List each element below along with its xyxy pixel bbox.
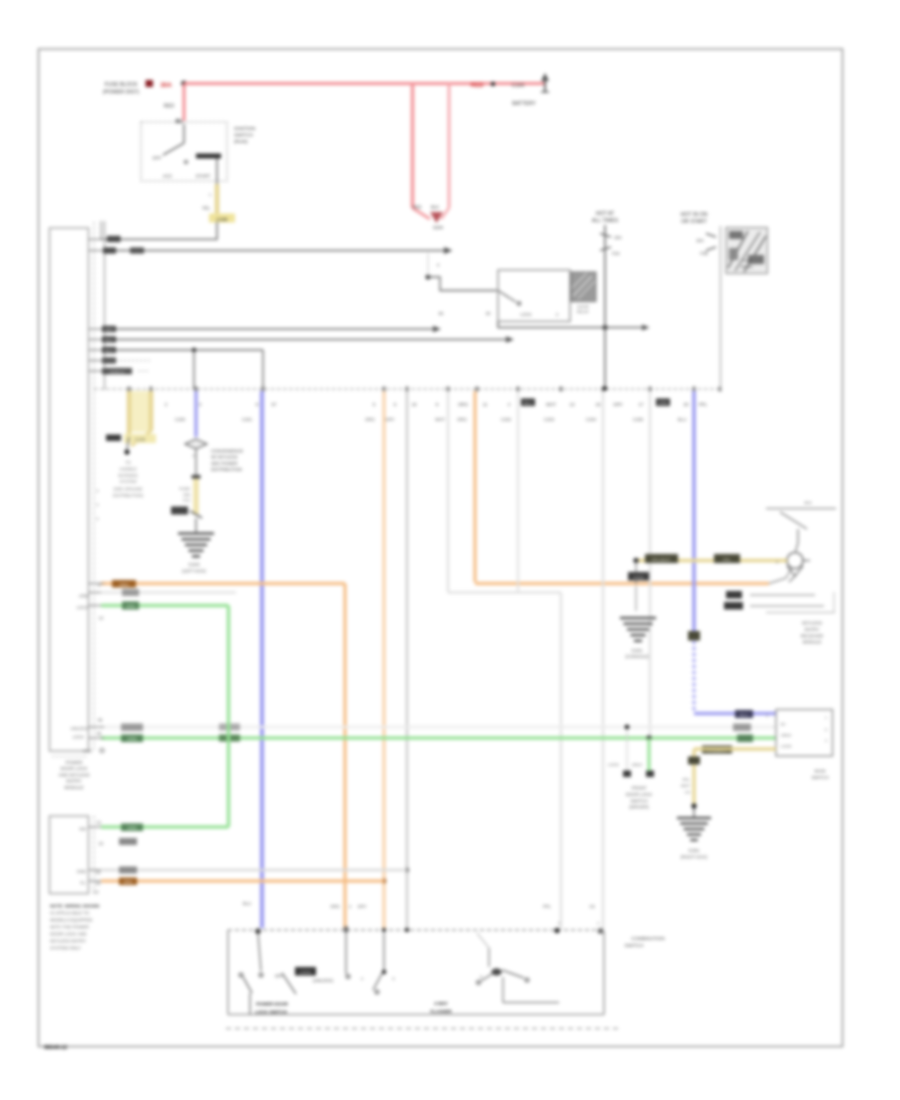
wire blue main [260, 391, 264, 928]
wire K2 out drop [497, 322, 499, 329]
pin stub row2 [89, 250, 105, 252]
wire circle right stub [803, 560, 810, 562]
wire pale 3 drop [602, 391, 604, 930]
svg-text:ORG: ORG [123, 880, 133, 885]
svg-text:MODULE: MODULE [803, 640, 822, 645]
svg-text:SYSTEM ONLY: SYSTEM ONLY [50, 946, 81, 951]
svg-text:ORG: ORG [330, 904, 340, 909]
svg-text:DOOR LOCK AND: DOOR LOCK AND [50, 932, 87, 937]
svg-text:30A: 30A [160, 82, 172, 89]
chip FL1 [171, 507, 188, 515]
arrow row3 [433, 326, 441, 333]
svg-text:FUSE BLOCK: FUSE BLOCK [105, 82, 138, 88]
connector C1 vertical [104, 221, 106, 390]
label row1 chip [107, 236, 121, 242]
contact S3 c1 [477, 981, 481, 985]
svg-text:MAIN: MAIN [815, 769, 826, 774]
svg-text:5: 5 [825, 728, 827, 732]
svg-text:SW: SW [79, 827, 86, 832]
wire pale 2 drop [517, 391, 519, 593]
wire row2 long [104, 250, 444, 252]
switch S3 right edge [603, 931, 605, 1015]
svg-text:(LEFT KICK): (LEFT KICK) [182, 568, 206, 573]
switch S3 bottom edge [228, 1014, 604, 1016]
svg-text:(CONSOLE): (CONSOLE) [625, 654, 649, 659]
wire S3 mid drop1 [345, 933, 347, 974]
pin tick x129 [128, 387, 131, 392]
svg-text:C2: C2 [93, 890, 99, 895]
svg-text:57: 57 [272, 402, 277, 407]
pin tick x518 [517, 387, 520, 392]
wire orange C drop [473, 391, 476, 582]
svg-text:DISTRIBUTION): DISTRIBUTION) [113, 493, 144, 498]
wire orange left run [101, 582, 345, 585]
svg-text:SHIELD: SHIELD [110, 369, 125, 374]
wire pad stub [626, 729, 628, 770]
wire row3 [104, 328, 433, 330]
svg-text:GRY: GRY [358, 904, 367, 909]
svg-text:PWR: PWR [743, 259, 752, 263]
svg-text:BLU: BLU [740, 713, 748, 718]
wire gray row [101, 869, 407, 871]
pin stub row6 [89, 360, 105, 362]
svg-text:C202: C202 [501, 417, 512, 422]
wire row7 dashed [138, 370, 149, 372]
wire blue right drop [692, 391, 696, 634]
node hot1 bus [603, 386, 607, 390]
node S3 pin 402 [405, 928, 409, 932]
wire row4 [104, 339, 506, 341]
node yellow join [124, 449, 129, 454]
wire yellow tail [127, 437, 129, 449]
svg-text:POWER: POWER [65, 760, 83, 765]
svg-text:UNLOCK: UNLOCK [71, 726, 89, 731]
svg-text:30: 30 [486, 311, 491, 316]
wire yellow switch run [694, 747, 776, 750]
svg-text:PPL: PPL [723, 557, 732, 562]
label row3 chip [102, 326, 116, 332]
node gray C junction [405, 868, 409, 872]
svg-text:17: 17 [639, 402, 644, 407]
contact S3 c2 [525, 978, 529, 982]
wire row5 [104, 349, 263, 351]
svg-text:MODELS EQUIPPED: MODELS EQUIPPED [50, 918, 92, 923]
wire row5 drop a [193, 350, 195, 389]
svg-text:GRY: GRY [613, 402, 623, 407]
svg-text:WARNING: WARNING [118, 473, 138, 478]
node S3 mid2 [382, 970, 386, 974]
wire blue right dashed [693, 641, 696, 712]
pin stub gray row [89, 869, 105, 871]
contact S3 mid2 [375, 990, 379, 994]
wire yellow keyless [636, 559, 787, 562]
wire pale 1 run [448, 591, 561, 593]
pin stub green return [89, 826, 105, 828]
chip yellow row [702, 746, 732, 754]
node orange B junction [382, 879, 387, 884]
label row5 chip [102, 347, 116, 353]
blade S3 mid2 [373, 974, 382, 991]
contact S3 mid1 [346, 975, 350, 979]
svg-text:WHT: WHT [681, 783, 691, 788]
svg-text:RECEIVER: RECEIVER [801, 633, 823, 638]
svg-text:PPL: PPL [699, 402, 708, 407]
pin tick x650 [649, 387, 652, 392]
arrow red loop [430, 212, 443, 223]
wire S3 center run [503, 1002, 559, 1004]
svg-text:BLU: BLU [105, 348, 113, 353]
relay K2 body blob [571, 272, 596, 302]
wire link to module [100, 238, 217, 240]
svg-text:B+: B+ [781, 722, 787, 727]
pin stub row1 [89, 238, 105, 240]
arrow row2 [444, 247, 453, 254]
pin stub row4 [89, 339, 105, 341]
svg-text:WHT: WHT [435, 417, 445, 422]
chip keyless 1 [645, 554, 678, 563]
svg-text:(SEE GROUND: (SEE GROUND [114, 487, 143, 492]
pin tick x448 [447, 387, 450, 392]
wire gray C drop [406, 391, 409, 929]
svg-text:22: 22 [99, 841, 104, 846]
svg-text:C205: C205 [633, 417, 644, 422]
svg-text:LOCK: LOCK [608, 762, 619, 767]
contact S3 b [259, 973, 263, 977]
battery B+ symbol [544, 75, 546, 92]
svg-text:GND: GND [83, 749, 92, 754]
svg-text:LOCK: LOCK [300, 970, 312, 975]
pin stub row7 [89, 370, 105, 372]
pin stub orange row2 [89, 880, 105, 882]
wire relay2 coil in [428, 277, 497, 291]
node row5 [192, 348, 196, 352]
wire yellow switch drop [692, 749, 695, 806]
svg-text:LOCK: LOCK [781, 744, 792, 749]
svg-text:S204: S204 [433, 225, 444, 230]
wire red loop right leg [448, 84, 451, 209]
switch blade K1 [163, 143, 184, 155]
svg-text:ILL: ILL [80, 880, 86, 885]
wire blue right corner [694, 712, 776, 715]
svg-text:21: 21 [97, 820, 102, 825]
wire pale 4 drop [649, 391, 651, 736]
label row2 chip [103, 247, 116, 253]
svg-text:13: 13 [570, 402, 575, 407]
wire K1 internal in [183, 124, 185, 143]
svg-text:8: 8 [96, 489, 98, 493]
svg-text:15A: 15A [614, 235, 622, 240]
svg-text:WHT: WHT [546, 402, 556, 407]
pin tick x384 [383, 387, 386, 392]
node blue bottom [255, 928, 261, 934]
wire pale 1 down [560, 593, 562, 930]
node S3 corner pin [598, 929, 603, 934]
svg-text:B1: B1 [176, 119, 183, 125]
svg-text:15A: 15A [183, 492, 190, 497]
wire S3 mid drop2 [383, 933, 385, 970]
blade S3 b [282, 973, 296, 994]
wire yellow pair left [127, 391, 132, 437]
pin tick x196 [195, 387, 198, 392]
svg-text:DOOR LOCK: DOOR LOCK [626, 792, 652, 797]
relay K3 box [726, 228, 768, 274]
node B [491, 82, 495, 86]
wire K2 out run [498, 327, 648, 329]
svg-text:WITH THE POWER: WITH THE POWER [50, 925, 89, 930]
wire blk below C2 [195, 449, 197, 478]
pin tick x720 [719, 387, 722, 392]
svg-text:GRN: GRN [658, 401, 667, 406]
svg-text:AUDIBLE: AUDIBLE [119, 466, 137, 471]
wire blue drop 1 [194, 391, 197, 437]
node A [181, 81, 187, 87]
relay K1 box [141, 122, 227, 181]
svg-text:ORG: ORG [119, 582, 129, 587]
fuse F1 [146, 80, 154, 87]
terminal bar K1 [196, 154, 221, 159]
svg-text:RED: RED [164, 104, 175, 110]
pin stub row3 [89, 328, 105, 330]
chip pale row [122, 589, 139, 596]
pin tick x477 [476, 387, 479, 392]
svg-text:C6: C6 [589, 904, 595, 909]
svg-text:F35: F35 [700, 251, 708, 256]
wire yellow gnd stub [693, 808, 695, 818]
svg-text:C100: C100 [512, 83, 525, 89]
wire hot right column [720, 226, 722, 389]
wire hot1 column [604, 225, 606, 389]
wire keyless link down [635, 561, 637, 585]
svg-text:LOCK: LOCK [73, 735, 85, 740]
wire orange C link [769, 567, 792, 584]
svg-text:OFF: OFF [275, 974, 284, 979]
antenna stroke [780, 512, 807, 529]
svg-text:BLU: BLU [678, 417, 686, 422]
svg-text:8: 8 [96, 503, 98, 507]
svg-text:POWER DOOR: POWER DOOR [256, 1002, 289, 1007]
svg-text:C203: C203 [544, 417, 555, 422]
wire red feed horizontal [184, 82, 545, 85]
wire row6 dashed [104, 360, 151, 362]
pin stub green row [89, 605, 105, 607]
svg-text:G203: G203 [188, 562, 200, 567]
arrow K2 out [642, 325, 650, 331]
wire orange B [383, 391, 386, 929]
switch arm keyless [796, 529, 799, 552]
svg-text:START: START [196, 174, 211, 179]
wire red drop to relay [183, 84, 186, 122]
blade S3 c2 [502, 970, 524, 978]
svg-text:(RUN): (RUN) [234, 139, 248, 145]
chip blue row [735, 710, 753, 718]
pin chip A1 [521, 399, 535, 407]
chip orange lower [119, 878, 137, 886]
svg-text:DOOR: DOOR [577, 305, 589, 309]
chip C213 [628, 572, 649, 581]
svg-text:LOCK: LOCK [77, 605, 89, 610]
svg-text:CONVENIENCE: CONVENIENCE [211, 449, 243, 454]
wire below orange stub [635, 586, 637, 611]
wire green return [101, 825, 229, 828]
connector chip C245 [209, 214, 235, 223]
svg-text:4 WAY: 4 WAY [434, 1001, 448, 1006]
fuse F24 symbol [600, 234, 611, 238]
blade S3 a [243, 977, 252, 993]
svg-text:8: 8 [480, 975, 482, 979]
svg-text:C246: C246 [135, 437, 146, 442]
svg-text:8: 8 [96, 517, 98, 521]
svg-text:COMBINATION: COMBINATION [631, 936, 665, 942]
chip yellow top [688, 757, 700, 765]
label row6 chip [102, 357, 116, 363]
label row7 chip [102, 368, 132, 374]
svg-text:ORG: ORG [365, 417, 375, 422]
wire pale 1 drop [447, 391, 449, 593]
svg-text:BLK: BLK [105, 338, 113, 343]
svg-text:SWITCH: SWITCH [630, 798, 647, 803]
svg-text:IGNITION: IGNITION [234, 126, 256, 132]
switch pads [623, 771, 631, 778]
node S3 pin 384 [382, 928, 386, 932]
chip green return [121, 824, 143, 832]
module M1 inner dash [52, 756, 88, 758]
svg-text:FRONT: FRONT [631, 786, 646, 791]
pin tick x407 [406, 387, 409, 392]
chip actuator row1 [726, 591, 742, 599]
arrow row4 [506, 336, 514, 343]
wire feed faint [427, 253, 429, 277]
wire yellow pair fill [127, 391, 149, 432]
chip green 2 [737, 735, 753, 743]
svg-text:MODULE: MODULE [64, 785, 83, 790]
svg-text:SWITCH: SWITCH [234, 133, 253, 139]
svg-text:B10: B10 [804, 500, 812, 505]
svg-text:GND: GND [77, 869, 86, 874]
chip white 2 [733, 724, 751, 732]
svg-text:ENTRY: ENTRY [805, 627, 820, 632]
svg-text:C200: C200 [175, 417, 186, 422]
pin stub green [89, 737, 105, 739]
svg-text:98G40-12: 98G40-12 [44, 1045, 67, 1051]
svg-text:G201: G201 [631, 648, 643, 653]
switch S3 left edge [227, 930, 229, 1015]
wire pale left row [101, 591, 236, 593]
svg-text:GRN: GRN [126, 604, 135, 609]
ground G301 [677, 817, 711, 819]
chip yellow pair [124, 434, 156, 443]
node white row [625, 725, 630, 730]
svg-text:C245: C245 [217, 217, 228, 222]
svg-text:W/ KEYLESS: W/ KEYLESS [211, 455, 238, 460]
fuse F35 symbol [706, 234, 716, 238]
connector dashed below [226, 1028, 618, 1030]
svg-text:ORG: ORG [458, 402, 469, 407]
wire yellow link [215, 184, 220, 215]
svg-text:PPL: PPL [543, 904, 552, 909]
pin stub white [89, 726, 105, 728]
node K2 fuse junction [603, 325, 608, 330]
connector inline C2 [185, 439, 207, 449]
wire row5 drop b [262, 350, 264, 389]
svg-text:F12: F12 [183, 498, 191, 503]
wire actuator right bracket [833, 592, 835, 613]
chip orange row [112, 580, 136, 588]
svg-text:SYSTEM: SYSTEM [120, 479, 137, 484]
svg-text:12: 12 [99, 616, 104, 621]
wire green upper row [101, 604, 229, 607]
svg-text:C213: C213 [633, 575, 644, 580]
wire orange lower row [101, 879, 384, 882]
ground G201 [620, 617, 656, 620]
pin tick x263 [262, 387, 265, 392]
svg-text:DISTRIBUTION: DISTRIBUTION [211, 467, 242, 472]
svg-text:UNLK: UNLK [781, 733, 792, 738]
svg-text:UNLK: UNLK [632, 762, 643, 767]
svg-text:(UNLOCK): (UNLOCK) [313, 978, 334, 983]
chip gray row [119, 867, 137, 874]
svg-text:BLU: BLU [524, 401, 532, 406]
ground G203 [178, 532, 214, 535]
svg-text:NOTE: WIRING SHOWN: NOTE: WIRING SHOWN [50, 904, 99, 909]
wire S3 stem feed [477, 933, 489, 948]
pin circle row3 [100, 749, 104, 753]
svg-text:3: 3 [825, 739, 827, 743]
pin tick x694 [693, 387, 696, 392]
wire yellow pair right [149, 391, 154, 431]
chip white 1 [121, 724, 143, 732]
svg-text:SWITCH: SWITCH [811, 775, 828, 780]
svg-text:ALL TIMES: ALL TIMES [592, 218, 619, 224]
chip keyless 2 [714, 554, 740, 563]
wire green pad drop [648, 738, 651, 771]
contact K2 [517, 302, 520, 305]
fusible link FL1 [193, 477, 199, 514]
svg-text:RED: RED [413, 205, 422, 210]
svg-text:PPL/WHT: PPL/WHT [652, 557, 671, 562]
chip yellow pair bold [106, 435, 121, 442]
svg-text:(RIGHT KICK): (RIGHT KICK) [681, 854, 708, 859]
module M1 box lower [50, 816, 89, 894]
wire link down [216, 222, 218, 240]
svg-text:DOOR LOCK: DOOR LOCK [60, 766, 87, 771]
wire white row [101, 726, 776, 729]
svg-text:GRN: GRN [127, 737, 136, 742]
pin stub row5 [89, 349, 105, 351]
svg-text:(POWER DIST): (POWER DIST) [103, 90, 140, 96]
svg-text:GRY: GRY [105, 327, 114, 332]
chip S3 lock [295, 967, 316, 976]
svg-text:FUSE: FUSE [179, 486, 190, 491]
svg-text:35: 35 [97, 731, 102, 736]
svg-text:C204: C204 [586, 417, 597, 422]
switch blade K2 [498, 291, 516, 303]
wire red loop left leg [411, 84, 414, 209]
label row 842 chip [119, 838, 137, 845]
svg-text:F24: F24 [612, 251, 620, 256]
svg-text:OFF: OFF [152, 156, 161, 161]
module M1 connector dashed [93, 222, 95, 751]
svg-text:19: 19 [412, 402, 417, 407]
contact S3 a [239, 973, 243, 977]
pin tick x561 [560, 387, 563, 392]
wire actuator row2 [750, 605, 824, 607]
svg-text:23: 23 [96, 870, 101, 875]
node relay2 feed [426, 275, 431, 280]
svg-text:C201: C201 [242, 417, 253, 422]
wire to ground G203 [195, 518, 197, 534]
svg-text:GRN: GRN [127, 826, 136, 831]
svg-text:HOT IN ON: HOT IN ON [681, 212, 708, 218]
